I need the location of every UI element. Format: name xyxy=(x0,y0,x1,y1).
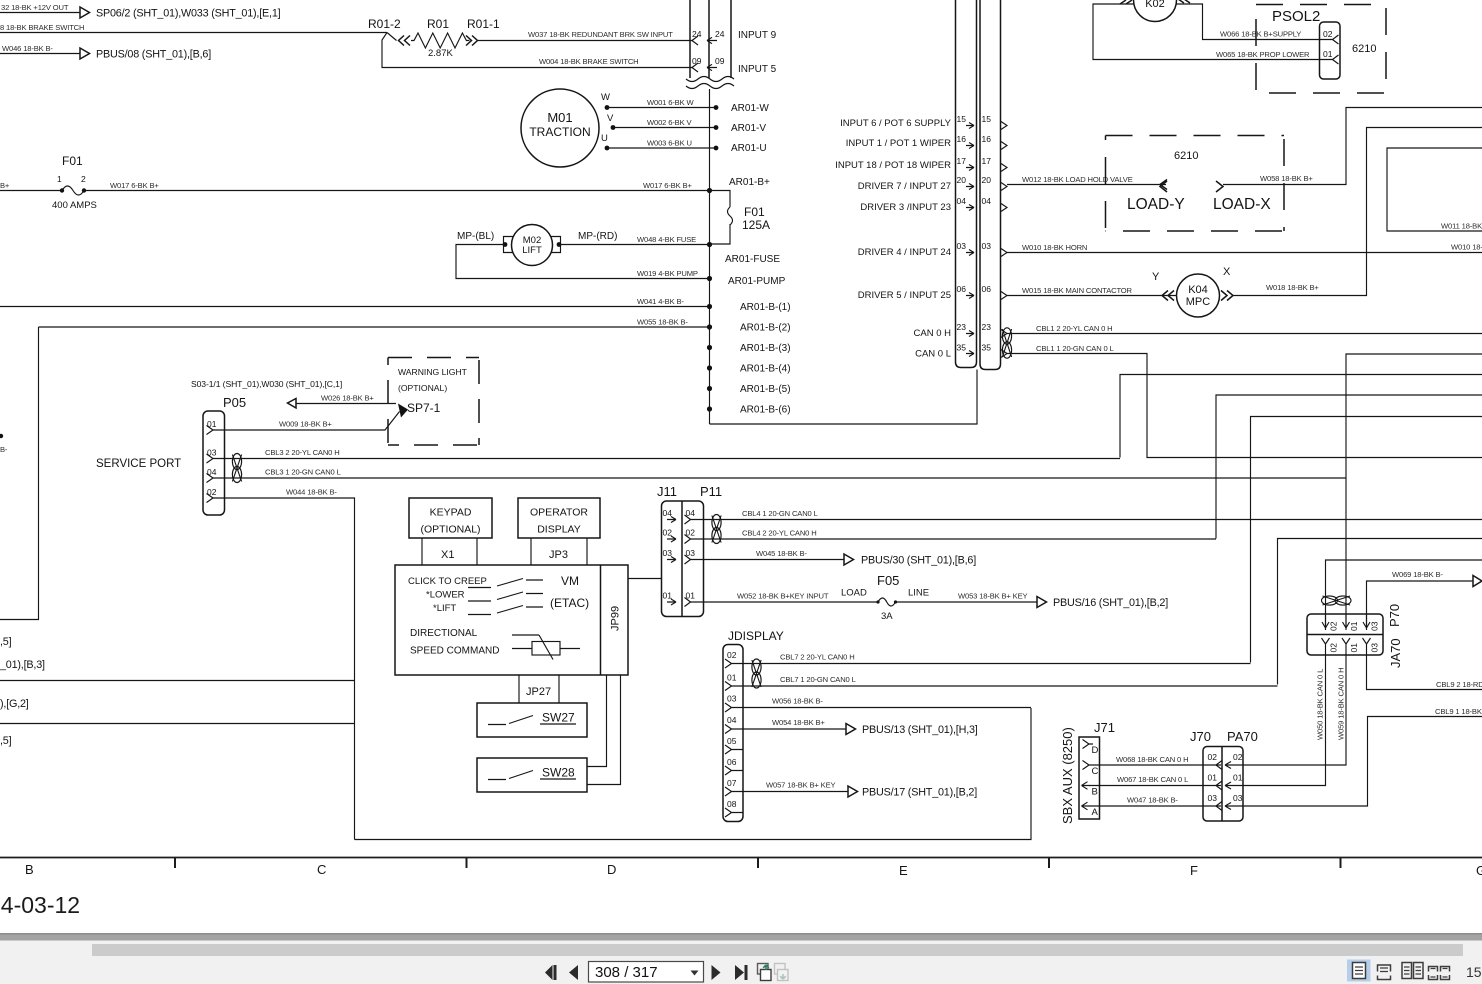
svg-text:03: 03 xyxy=(1370,643,1380,653)
node AR01-V dot xyxy=(714,125,719,130)
svg-text:W041 4-BK B-: W041 4-BK B- xyxy=(637,297,684,306)
svg-text:01: 01 xyxy=(1233,773,1243,783)
pin 04 row driver3 xyxy=(860,196,1007,213)
svg-text:02: 02 xyxy=(1208,752,1218,762)
svg-text:W011 18-BK: W011 18-BK xyxy=(1441,222,1482,231)
svg-text:S03-1/1 (SHT_01),W030 (SHT_01): S03-1/1 (SHT_01),W030 (SHT_01),[C,1] xyxy=(191,379,342,389)
svg-text:W015 18-BK MAIN CONTACTOR: W015 18-BK MAIN CONTACTOR xyxy=(1022,286,1133,295)
svg-text:CBL7 2 20-YL CAN0 H: CBL7 2 20-YL CAN0 H xyxy=(780,653,855,662)
svg-text:W057 18-BK B+ KEY: W057 18-BK B+ KEY xyxy=(766,781,836,790)
svg-text:U: U xyxy=(601,133,608,144)
wire SW28 a xyxy=(587,675,607,767)
wire CBL3-2 CAN0H xyxy=(213,458,1120,460)
wire CAN riser 1277 xyxy=(1278,539,1482,685)
svg-text:02: 02 xyxy=(1233,752,1243,762)
svg-text:X1: X1 xyxy=(441,549,454,561)
terminal MP-RD dot xyxy=(557,242,562,247)
drawing frame border xyxy=(0,857,1482,859)
svg-text:CBL1 1 20-GN CAN 0 L: CBL1 1 20-GN CAN 0 L xyxy=(1036,344,1114,353)
svg-text:W018 18-BK B+: W018 18-BK B+ xyxy=(1266,283,1319,292)
dashed box 6210 load xyxy=(1106,136,1285,232)
svg-text:04: 04 xyxy=(663,508,673,518)
wire W045 xyxy=(691,559,845,561)
svg-text:P11: P11 xyxy=(700,484,722,499)
svg-text:SPEED COMMAND: SPEED COMMAND xyxy=(410,646,499,657)
svg-text:VM: VM xyxy=(561,574,579,588)
pin 24 fork xyxy=(692,36,698,45)
wire W002 xyxy=(613,127,716,129)
svg-text:V: V xyxy=(607,113,614,124)
svg-text:2.87K: 2.87K xyxy=(428,48,453,59)
nav next page button xyxy=(712,965,721,980)
svg-text:W069 18-BK B-: W069 18-BK B- xyxy=(1392,570,1443,579)
svg-text:F01: F01 xyxy=(744,205,765,219)
svg-text:DRIVER 3 /INPUT 23: DRIVER 3 /INPUT 23 xyxy=(860,202,951,213)
dashed box PSOL2 xyxy=(1256,5,1386,94)
pin 35 row CAN0L xyxy=(915,343,1007,360)
bus AR01 vertical xyxy=(709,89,711,424)
motor M02 circle xyxy=(512,225,553,266)
svg-text:W056 18-BK B-: W056 18-BK B- xyxy=(772,697,823,706)
svg-text:CAN 0 H: CAN 0 H xyxy=(914,328,952,339)
svg-text:AR01-V: AR01-V xyxy=(731,123,766,134)
svg-text:07: 07 xyxy=(727,778,737,788)
legs X1 xyxy=(422,538,477,565)
box OPERATOR DISPLAY xyxy=(518,498,600,538)
svg-text:R01-1: R01-1 xyxy=(467,17,500,31)
wire W046 xyxy=(0,53,80,55)
svg-text:R01-2: R01-2 xyxy=(368,17,401,31)
svg-text:01: 01 xyxy=(1349,621,1359,631)
svg-text:AR01-B+: AR01-B+ xyxy=(729,177,770,188)
layout continuous icon xyxy=(1378,965,1391,980)
pin row 01 J70 xyxy=(1208,773,1244,791)
terminal W dot xyxy=(605,105,610,110)
sheet arrow PBUS/16 xyxy=(1037,597,1047,608)
wire W047 xyxy=(1089,805,1221,807)
svg-text:W058 18-BK B+: W058 18-BK B+ xyxy=(1260,174,1313,183)
wire VM to J11 xyxy=(628,578,662,580)
svg-text:01: 01 xyxy=(727,673,737,683)
toolbar background xyxy=(0,941,1482,984)
svg-text:(OPTIONAL): (OPTIONAL) xyxy=(420,524,480,536)
svg-text:CBL1 2 20-YL CAN 0 H: CBL1 2 20-YL CAN 0 H xyxy=(1036,324,1113,333)
motor M01 circle xyxy=(521,89,599,167)
svg-text:CBL4 2 20-YL CAN0 H: CBL4 2 20-YL CAN0 H xyxy=(742,529,817,538)
pin 15 row xyxy=(840,114,1007,130)
connector P24 column2 xyxy=(730,0,732,78)
terminal MP-RD bracket xyxy=(551,237,561,253)
svg-text:JP3: JP3 xyxy=(549,549,568,561)
svg-text:*LOWER: *LOWER xyxy=(426,590,465,601)
sheet arrow PBUS/17 xyxy=(848,786,858,797)
svg-text:308 / 317: 308 / 317 xyxy=(595,964,658,981)
svg-text:03: 03 xyxy=(1370,621,1380,631)
pin 20 row driver7 xyxy=(858,175,1007,192)
sheet arrow PBUS/08 xyxy=(80,48,90,59)
svg-text:24: 24 xyxy=(715,29,725,39)
terminal MP-BL bracket xyxy=(504,237,514,253)
wire W012 xyxy=(1007,184,1166,186)
svg-text:03: 03 xyxy=(1208,793,1218,803)
switch SW28 xyxy=(488,771,533,780)
chevrons R01-1 xyxy=(466,36,478,46)
svg-text:W055 18-BK B-: W055 18-BK B- xyxy=(637,318,688,327)
pin 09 fork xyxy=(692,63,698,72)
svg-text:C: C xyxy=(1092,766,1099,777)
wire W050 xyxy=(1243,655,1326,786)
svg-text:PBUS/13 (SHT_01),[H,3]: PBUS/13 (SHT_01),[H,3] xyxy=(862,724,978,736)
pin row 04 J11 xyxy=(663,508,696,524)
svg-text:),[G,2]: ),[G,2] xyxy=(0,698,29,710)
pin row 02 J70 xyxy=(1208,752,1244,770)
pin 01 fork xyxy=(207,426,214,435)
svg-text:J11: J11 xyxy=(657,484,677,499)
switch lift xyxy=(468,606,543,615)
node B-6 dot xyxy=(707,406,712,411)
svg-text:F05: F05 xyxy=(877,573,899,588)
svg-text:16: 16 xyxy=(957,134,967,144)
svg-text:1: 1 xyxy=(57,174,62,184)
svg-text:INPUT 6 / POT 6 SUPPLY: INPUT 6 / POT 6 SUPPLY xyxy=(840,118,952,129)
node PUMP junction dot xyxy=(707,276,712,281)
pin 03 row driver4 xyxy=(858,241,1007,258)
sheet arrow PBUS/30 xyxy=(844,554,854,565)
svg-text:01: 01 xyxy=(663,591,673,601)
svg-text:W046 18-BK B-: W046 18-BK B- xyxy=(2,44,53,53)
pin row 01 J11 xyxy=(663,591,696,607)
box VM ETAC xyxy=(395,565,628,675)
svg-text:W047 18-BK B-: W047 18-BK B- xyxy=(1127,796,1178,805)
resistor R01 xyxy=(411,33,469,48)
valve LOAD-X arrow xyxy=(1216,181,1223,192)
svg-text:K04: K04 xyxy=(1188,284,1208,296)
svg-text:06: 06 xyxy=(982,284,992,294)
svg-text:01: 01 xyxy=(1208,773,1218,783)
pin 01 fork xyxy=(1333,55,1339,64)
page dropdown arrow xyxy=(691,971,699,976)
relay K02 chevrons right xyxy=(1178,0,1190,3)
svg-text:W002 6-BK V: W002 6-BK V xyxy=(647,118,692,127)
terminal V dot xyxy=(611,125,616,130)
svg-text:AR01-FUSE: AR01-FUSE xyxy=(725,254,780,265)
node B-1 dot xyxy=(707,304,712,309)
svg-text:JP27: JP27 xyxy=(526,686,551,698)
svg-text:F: F xyxy=(1190,863,1198,878)
svg-text:03: 03 xyxy=(1233,793,1243,803)
svg-text:AR01-B-(5): AR01-B-(5) xyxy=(740,384,791,395)
box SW28 xyxy=(477,758,587,792)
pin 03 fork xyxy=(725,703,732,712)
node B+ junction dot xyxy=(707,188,712,193)
svg-text:W004 18-BK BRAKE SWITCH: W004 18-BK BRAKE SWITCH xyxy=(539,57,639,66)
layout single page selected xyxy=(1347,960,1371,982)
wire W048 xyxy=(559,244,710,246)
wire W054 xyxy=(732,728,847,730)
svg-text:AR01-PUMP: AR01-PUMP xyxy=(728,276,786,287)
wire W015 xyxy=(1007,295,1176,297)
fuse F01 element xyxy=(62,186,84,195)
svg-text:DRIVER 7 / INPUT 27: DRIVER 7 / INPUT 27 xyxy=(858,181,951,192)
connector break wave xyxy=(686,77,734,89)
svg-text:W045 18-BK B-: W045 18-BK B- xyxy=(756,549,807,558)
svg-text:01: 01 xyxy=(1323,49,1333,59)
svg-text:W054 18-BK B+: W054 18-BK B+ xyxy=(772,718,825,727)
svg-text:SP7-1: SP7-1 xyxy=(407,401,441,415)
pin A arrow xyxy=(1082,802,1090,810)
svg-text:DRIVER 5 / INPUT 25: DRIVER 5 / INPUT 25 xyxy=(858,290,951,301)
svg-text:M01: M01 xyxy=(547,110,572,125)
terminal MP-BL dot xyxy=(503,242,508,247)
svg-text:WARNING LIGHT: WARNING LIGHT xyxy=(398,367,468,377)
wire W008 brake switch xyxy=(0,32,387,34)
wire CAN riser 1250 xyxy=(1251,417,1482,663)
svg-text:MPC: MPC xyxy=(1186,296,1211,308)
svg-text:CBL7 1 20-GN CAN0 L: CBL7 1 20-GN CAN0 L xyxy=(780,675,856,684)
svg-text:AR01-U: AR01-U xyxy=(731,143,767,154)
node AR01-W dot xyxy=(714,105,719,110)
svg-text:24-03-12: 24-03-12 xyxy=(0,892,80,918)
svg-text:32 18-BK +12V OUT: 32 18-BK +12V OUT xyxy=(1,3,69,12)
svg-text:16: 16 xyxy=(982,134,992,144)
wire W068 xyxy=(1089,764,1221,766)
wire CBL7-1 CAN0L xyxy=(732,685,1278,687)
svg-text:W019 4-BK PUMP: W019 4-BK PUMP xyxy=(637,269,698,278)
wire W009 xyxy=(213,412,400,431)
wire CAN H riser exit xyxy=(1120,375,1482,458)
svg-text:MP-(BL): MP-(BL) xyxy=(457,231,494,242)
svg-text:06: 06 xyxy=(727,757,737,767)
wire CBL9-1 xyxy=(1243,717,1482,807)
svg-text:X: X xyxy=(1223,266,1231,278)
svg-text:D: D xyxy=(1092,745,1099,756)
svg-text:,5]: ,5] xyxy=(0,735,12,747)
svg-text:(OPTIONAL): (OPTIONAL) xyxy=(398,383,447,393)
fuse F01 dot2 xyxy=(82,188,86,192)
pin 02 fork xyxy=(1333,35,1339,44)
wire W001 xyxy=(607,107,716,109)
wire CBL1-2 CAN0H xyxy=(1007,333,1482,335)
svg-text:W050 18-BK CAN 0 L: W050 18-BK CAN 0 L xyxy=(1316,669,1325,740)
svg-text:W010 18-BK HORN: W010 18-BK HORN xyxy=(1022,243,1087,252)
wire CBL3-1 CAN0L xyxy=(213,477,1346,479)
pin 09 arrow xyxy=(707,64,717,70)
svg-text:SW27: SW27 xyxy=(542,711,575,725)
svg-text:AR01-B-(1): AR01-B-(1) xyxy=(740,302,791,313)
svg-text:17: 17 xyxy=(957,156,967,166)
svg-text:W048 4-BK FUSE: W048 4-BK FUSE xyxy=(637,235,696,244)
relay K02 circle xyxy=(1134,0,1177,22)
svg-text:SW28: SW28 xyxy=(542,766,575,780)
svg-text:,5]: ,5] xyxy=(0,636,12,648)
node AR01-U dot xyxy=(714,146,719,151)
nav last page button xyxy=(735,965,744,980)
svg-text:PBUS/16 (SHT_01),[B,2]: PBUS/16 (SHT_01),[B,2] xyxy=(1053,597,1168,609)
svg-text:20: 20 xyxy=(957,175,967,185)
wire W057 xyxy=(732,791,849,793)
legs JP3 xyxy=(531,538,587,565)
svg-text:8 18-BK BRAKE SWITCH: 8 18-BK BRAKE SWITCH xyxy=(0,23,84,32)
wire SW28 b xyxy=(587,675,621,785)
svg-text:20: 20 xyxy=(982,175,992,185)
wire exit 680 xyxy=(0,680,355,682)
svg-text:W068 18-BK CAN 0 H: W068 18-BK CAN 0 H xyxy=(1116,755,1188,764)
svg-text:09: 09 xyxy=(692,56,702,66)
svg-text:LIFT: LIFT xyxy=(522,245,542,256)
svg-text:P05: P05 xyxy=(223,395,246,410)
twisted pair JA70 xyxy=(1322,596,1352,605)
pin D fork xyxy=(1083,740,1094,749)
svg-text:W059 18-BK CAN 0 H: W059 18-BK CAN 0 H xyxy=(1337,668,1346,740)
svg-text:B: B xyxy=(25,862,34,877)
svg-text:6210: 6210 xyxy=(1174,150,1198,162)
svg-text:CAN 0 L: CAN 0 L xyxy=(915,349,951,360)
node B-4 dot xyxy=(707,365,712,370)
wire CBL4-2 CAN0H xyxy=(691,538,1217,540)
pin 03 fork xyxy=(207,454,214,463)
box KEYPAD xyxy=(409,498,492,538)
svg-text:LOAD-X: LOAD-X xyxy=(1213,196,1271,213)
pin 06 row driver5 xyxy=(858,284,1007,301)
svg-text:02: 02 xyxy=(727,650,737,660)
svg-text:DIRECTIONAL: DIRECTIONAL xyxy=(410,628,478,639)
svg-text:AR01-B-(2): AR01-B-(2) xyxy=(740,323,791,334)
svg-text:W010 18-B: W010 18-B xyxy=(1451,243,1482,252)
page number box xyxy=(589,962,704,983)
node B-5 dot xyxy=(707,386,712,391)
svg-text:R01: R01 xyxy=(427,17,449,31)
svg-text:CBL3 1 20-GN CAN0 L: CBL3 1 20-GN CAN0 L xyxy=(265,468,341,477)
wire split to R01-2 xyxy=(387,33,397,41)
svg-text:AR01-B-(6): AR01-B-(6) xyxy=(740,405,791,416)
legs JP27 xyxy=(519,675,559,703)
svg-text:P70: P70 xyxy=(1387,604,1402,627)
svg-text:W: W xyxy=(601,92,610,103)
svg-text:INPUT 5: INPUT 5 xyxy=(738,64,777,75)
svg-text:DRIVER 4 / INPUT 24: DRIVER 4 / INPUT 24 xyxy=(858,247,951,258)
svg-text:*LIFT: *LIFT xyxy=(433,603,456,614)
svg-text:PSOL2: PSOL2 xyxy=(1272,8,1320,25)
chevrons R01-2 xyxy=(399,36,411,46)
svg-text:W052 18-BK B+KEY INPUT: W052 18-BK B+KEY INPUT xyxy=(737,592,829,601)
dashed box warning light xyxy=(388,358,479,446)
fuse F01 dot1 xyxy=(60,188,64,192)
svg-text:INPUT 9: INPUT 9 xyxy=(738,30,777,41)
nav first page button xyxy=(545,965,553,980)
pin row 03 J70 xyxy=(1208,793,1244,811)
pin 02 fork xyxy=(207,494,214,503)
svg-text:2: 2 xyxy=(81,174,86,184)
connector J71 body xyxy=(1079,737,1100,819)
wire P70-01 feeder xyxy=(1346,354,1482,630)
svg-text:Y: Y xyxy=(1152,271,1160,283)
svg-text:CBL3 2 20-YL CAN0 H: CBL3 2 20-YL CAN0 H xyxy=(265,448,340,457)
connector J11-P11 body xyxy=(662,501,704,617)
wire W065 from K02 xyxy=(1093,4,1333,60)
svg-text:K02: K02 xyxy=(1145,0,1165,10)
wire W003 xyxy=(607,147,716,149)
svg-text:PA70: PA70 xyxy=(1227,729,1258,744)
node B-2 dot xyxy=(707,324,712,329)
wire W055 vertical xyxy=(0,327,39,620)
svg-text:03: 03 xyxy=(727,694,737,704)
wire W019 xyxy=(456,245,710,279)
terminal U dot xyxy=(605,146,610,151)
wire W026 xyxy=(296,403,396,405)
sheet arrow SP06/2 xyxy=(80,7,90,18)
connector PSOL2 body xyxy=(1320,22,1341,79)
wire branch to pin 09 xyxy=(382,33,692,68)
fuse F05 dots xyxy=(876,600,879,603)
svg-text:KEYPAD: KEYPAD xyxy=(430,507,472,519)
connector J70-PA70 divider xyxy=(1221,747,1223,822)
svg-text:W003 6-BK U: W003 6-BK U xyxy=(647,139,692,148)
pin labels P70 row xyxy=(1329,621,1380,631)
svg-text:MP-(RD): MP-(RD) xyxy=(578,231,617,242)
wire W017 xyxy=(0,190,710,192)
wire bottom loop xyxy=(355,708,1032,840)
connector P24 column1 xyxy=(690,0,709,78)
svg-text:W012 18-BK LOAD HOLD VALVE: W012 18-BK LOAD HOLD VALVE xyxy=(1022,175,1133,184)
scrollbar thumb xyxy=(92,944,1463,956)
svg-text:INPUT 18 / POT 18 WIPER: INPUT 18 / POT 18 WIPER xyxy=(835,160,951,171)
wire W010 xyxy=(1007,252,1482,254)
svg-text:W037 18-BK REDUNDANT BRK SW IN: W037 18-BK REDUNDANT BRK SW INPUT xyxy=(528,30,673,39)
svg-text:W066 18-BK B+SUPPLY: W066 18-BK B+SUPPLY xyxy=(1220,30,1301,39)
pin 01 fork xyxy=(725,682,732,691)
wire CBL1-1 CAN0L xyxy=(1007,354,1482,458)
svg-text:W026 18-BK B+: W026 18-BK B+ xyxy=(321,394,374,403)
wire exit 723 xyxy=(0,723,355,725)
zone ticks xyxy=(175,858,1341,869)
rheostat symbol xyxy=(512,635,580,660)
underline SW28 xyxy=(540,778,576,780)
svg-text:15: 15 xyxy=(1466,964,1482,980)
pin 04 fork xyxy=(725,725,732,734)
wire CBL4-1 CAN0L xyxy=(691,519,1482,521)
svg-text:03: 03 xyxy=(957,241,967,251)
pin arrows P70 top row xyxy=(1322,614,1370,628)
pin labels JA70 row xyxy=(1329,643,1380,653)
node FUSE junction dot xyxy=(707,242,712,247)
connector J11-P11 divider xyxy=(681,501,683,617)
next view icon disabled xyxy=(775,964,789,981)
svg-text:TRACTION: TRACTION xyxy=(529,125,590,139)
node B-3 dot xyxy=(707,345,712,350)
svg-text:OPERATOR: OPERATOR xyxy=(530,507,588,519)
svg-text:F01: F01 xyxy=(62,154,83,168)
svg-text:AR01-B-(3): AR01-B-(3) xyxy=(740,343,791,354)
pin 17 row xyxy=(835,156,1007,172)
sheet arrow W069 xyxy=(1473,576,1482,587)
svg-text:CBL9 2 18-RD: CBL9 2 18-RD xyxy=(1436,680,1482,689)
pin 06 fork xyxy=(725,766,743,775)
pin 04 fork xyxy=(207,474,214,483)
svg-text:04: 04 xyxy=(982,196,992,206)
pin C fork xyxy=(1083,761,1090,770)
svg-text:02: 02 xyxy=(1323,29,1333,39)
underline SW27 xyxy=(540,723,576,725)
svg-text:CLICK TO CREEP: CLICK TO CREEP xyxy=(408,576,487,587)
svg-text:23: 23 xyxy=(957,322,967,332)
svg-text:W053 18-BK B+ KEY: W053 18-BK B+ KEY xyxy=(958,592,1028,601)
svg-text:01: 01 xyxy=(1349,643,1359,653)
connector JDISPLAY body xyxy=(723,645,743,822)
svg-text:SP06/2 (SHT_01),W033 (SHT_01),: SP06/2 (SHT_01),W033 (SHT_01),[E,1] xyxy=(96,8,281,20)
fuse F01 bus loop xyxy=(710,191,733,245)
wire W059 xyxy=(1243,655,1346,765)
svg-text:04: 04 xyxy=(957,196,967,206)
